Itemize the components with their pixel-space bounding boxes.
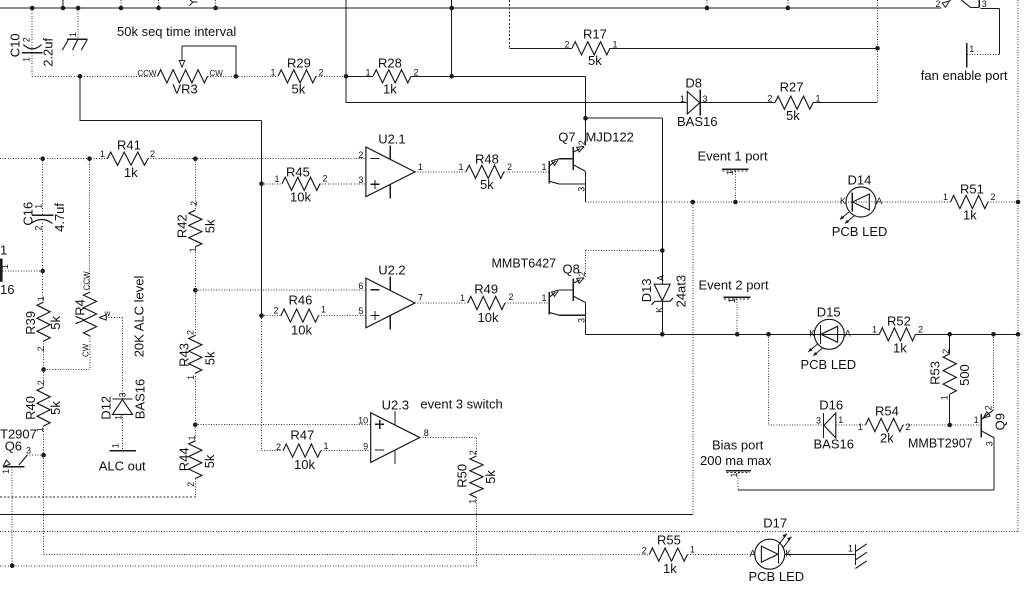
wire down x=999 — [999, 8, 1001, 54]
wire R53 bottom leg — [949, 394, 951, 425]
wire y=118 to x=662 — [586, 117, 663, 119]
svg-text:A: A — [876, 196, 882, 206]
wire corner to R47 — [262, 450, 275, 452]
port ALC out — [99, 443, 146, 473]
wire x=662 down — [661, 118, 663, 250]
resistor R28 — [365, 55, 418, 96]
svg-text:6: 6 — [358, 281, 363, 291]
wire node to R42 — [194, 159, 196, 211]
svg-text:2: 2 — [273, 306, 278, 316]
diode D13 24at3 — [639, 251, 689, 335]
label 20K ALC level — [132, 276, 147, 358]
node junction R45 x=261 — [259, 182, 264, 187]
svg-text:1: 1 — [22, 57, 32, 62]
node junction x=737 y=334 — [735, 332, 740, 337]
svg-text:R41: R41 — [117, 138, 141, 153]
node bus junction x=78 — [76, 6, 81, 11]
transistor Q7 MJD122 — [541, 130, 633, 192]
wire D16 to R54 — [836, 424, 866, 426]
svg-text:BAS16: BAS16 — [133, 379, 148, 419]
wire VR4 wiper to D12 — [106, 318, 122, 400]
svg-text:1: 1 — [974, 415, 979, 425]
wire VR4 cw to junction — [44, 336, 90, 370]
svg-text:D17: D17 — [763, 516, 787, 531]
node junction x=768 y=334 — [766, 332, 771, 337]
svg-text:Q6: Q6 — [5, 438, 22, 453]
svg-text:2: 2 — [150, 149, 155, 159]
node junction x=949 y=334 — [947, 332, 952, 337]
wire R43 to pin10 node — [194, 373, 196, 425]
port fan enable — [921, 43, 1008, 83]
svg-text:1: 1 — [943, 192, 948, 202]
wire node to R46 — [262, 315, 282, 317]
svg-text:1: 1 — [872, 325, 877, 335]
wire bottom bus y=531 — [0, 530, 1018, 532]
wire U2.3 out to R50 — [420, 438, 477, 457]
svg-text:1: 1 — [680, 94, 685, 104]
svg-text:R49: R49 — [474, 282, 498, 297]
wire Q9 emitter up — [992, 334, 994, 410]
connector edge pin 16 — [0, 243, 14, 298]
resistor R39 — [23, 296, 63, 351]
svg-text:2: 2 — [22, 37, 32, 42]
svg-text:5k: 5k — [480, 177, 494, 192]
wire R53 top leg — [949, 334, 951, 353]
svg-text:1: 1 — [848, 544, 853, 554]
svg-text:K: K — [840, 196, 846, 206]
wire Q8 emitter to event2 — [584, 315, 586, 334]
wire stub up at x=707 — [706, 0, 708, 8]
wire VR3 to R29 — [208, 75, 279, 77]
wire dotted y=566 — [0, 565, 477, 567]
resistor R51 — [943, 182, 996, 223]
node junction x=43 y=369 — [41, 367, 46, 372]
svg-text:VR4: VR4 — [72, 299, 87, 324]
svg-text:1: 1 — [727, 298, 737, 303]
svg-text:BAS16: BAS16 — [814, 437, 854, 452]
svg-text:1: 1 — [365, 67, 370, 77]
wire U2.2 out to R49 — [415, 302, 468, 304]
wire x=877 down to R27 line — [877, 48, 879, 102]
svg-text:K: K — [785, 549, 791, 559]
wire R47 to pin9 — [321, 450, 371, 452]
wire Q9 collector down — [993, 438, 995, 490]
svg-text:1: 1 — [188, 247, 198, 252]
svg-text:D14: D14 — [848, 173, 872, 188]
svg-text:U2.1: U2.1 — [378, 132, 405, 147]
resistor R17 — [564, 27, 617, 69]
svg-text:2: 2 — [186, 330, 196, 335]
svg-text:1k: 1k — [124, 165, 138, 180]
wire Q7 collector up — [585, 118, 587, 145]
wire y=76 corner down to 118 — [585, 76, 587, 118]
op-amp U2.3 — [358, 398, 429, 465]
wire R41 node down to VR4 — [89, 159, 91, 292]
svg-text:A: A — [656, 275, 666, 281]
wire R48 to Q7 base — [504, 171, 549, 173]
wire y=490 to bias port — [738, 489, 994, 491]
svg-text:D15: D15 — [817, 305, 841, 320]
svg-text:5k: 5k — [588, 53, 602, 68]
wire partial symbol above bus at x=193 — [190, 0, 198, 6]
wire Q7 emitter to event1 — [584, 184, 586, 202]
svg-text:10k: 10k — [478, 310, 499, 325]
wire vertical x=346 from top — [345, 0, 347, 76]
node bus junction x=158 — [156, 6, 161, 11]
svg-text:R40: R40 — [23, 396, 38, 420]
svg-text:1: 1 — [729, 472, 739, 477]
wire junction to R28 — [346, 75, 373, 77]
svg-text:3: 3 — [816, 415, 821, 425]
node junction x=12 y=566 — [10, 564, 15, 569]
svg-text:D16: D16 — [819, 398, 843, 413]
svg-text:1: 1 — [690, 545, 695, 555]
node junction x=735 y=202 — [733, 200, 738, 205]
node junction x=195 y=425 — [193, 422, 198, 427]
svg-text:9: 9 — [363, 441, 368, 451]
port Event 1 — [698, 149, 768, 203]
resistor R27 — [767, 80, 820, 124]
svg-text:U2.3: U2.3 — [382, 398, 409, 413]
svg-text:1: 1 — [418, 162, 423, 172]
svg-text:1: 1 — [110, 443, 120, 448]
node bus junction x=121 — [119, 6, 124, 11]
transistor Q6 — [0, 427, 37, 474]
wire R49 to Q8 base — [505, 302, 549, 304]
wire stub up at x=158 — [158, 0, 160, 8]
svg-text:10k: 10k — [290, 190, 311, 205]
svg-text:7: 7 — [418, 293, 423, 303]
wire vertical x=261 upper — [261, 121, 263, 316]
wire x=43 down to y=554 — [43, 455, 45, 554]
svg-text:K: K — [654, 307, 664, 313]
node bus junction x=788 — [786, 6, 791, 11]
svg-text:2: 2 — [991, 192, 996, 202]
wire C10 to VR3 — [32, 75, 157, 77]
svg-text:2: 2 — [767, 94, 772, 104]
node bus junction x=32 — [30, 6, 35, 11]
LED D14 PCB LED — [832, 173, 888, 240]
node bus junction x=215 — [213, 6, 218, 11]
svg-text:R17: R17 — [583, 27, 607, 42]
wire right vertical bus x=1018 — [1017, 0, 1019, 531]
op-amp U2.1 — [358, 132, 423, 199]
svg-text:1: 1 — [0, 243, 7, 258]
svg-text:CW: CW — [210, 69, 224, 78]
node junction x=195 y=290 — [193, 288, 198, 293]
svg-text:2: 2 — [189, 201, 199, 206]
resistor R40 — [23, 380, 63, 432]
svg-text:1k: 1k — [383, 82, 397, 97]
node junction x=43 y=455 — [41, 453, 46, 458]
svg-text:R46: R46 — [289, 293, 313, 308]
wire R40 to Q6 node — [43, 426, 45, 455]
svg-text:5k: 5k — [48, 315, 63, 329]
node junction x=42 y=159 — [40, 156, 45, 161]
svg-text:R52: R52 — [887, 314, 911, 329]
svg-text:2: 2 — [36, 380, 46, 385]
node junction x=89 y=159 — [87, 156, 92, 161]
wire x=768 down — [768, 334, 770, 425]
svg-text:Bias port: Bias port — [712, 438, 764, 453]
wire dashed y=497 — [0, 496, 195, 498]
svg-text:3: 3 — [117, 392, 127, 397]
svg-text:R48: R48 — [475, 152, 499, 167]
wire to D16 — [769, 424, 824, 426]
wire R27 to x=877 — [813, 102, 878, 104]
wire R39 to junction — [43, 341, 45, 370]
resistor R41 — [100, 138, 155, 181]
svg-text:3: 3 — [26, 445, 31, 455]
svg-text:3: 3 — [985, 441, 995, 446]
svg-text:5k: 5k — [292, 82, 306, 97]
svg-text:2: 2 — [36, 346, 46, 351]
svg-text:1: 1 — [460, 293, 465, 303]
svg-text:R28: R28 — [378, 55, 402, 70]
svg-text:1: 1 — [541, 293, 546, 303]
wire y=515 bus — [0, 514, 693, 516]
svg-text:50k seq time interval: 50k seq time interval — [117, 24, 236, 39]
svg-text:D12: D12 — [99, 396, 114, 420]
wire event2 line left — [585, 333, 879, 335]
wire y=554 bus — [44, 553, 650, 555]
resistor R48 — [458, 152, 512, 193]
svg-text:R42: R42 — [175, 214, 190, 238]
wire stub up at x=63 — [62, 0, 64, 8]
svg-text:Event 1 port: Event 1 port — [698, 149, 768, 164]
wire pin6 line — [195, 289, 366, 291]
svg-text:BAS16: BAS16 — [677, 114, 717, 129]
svg-text:C10: C10 — [8, 33, 23, 57]
ground chassis top — [62, 8, 87, 50]
resistor R53 — [928, 349, 972, 400]
svg-text:2: 2 — [935, 0, 940, 9]
node junction x=1018 y=202 — [1016, 200, 1021, 205]
wire R55 to D17 — [687, 554, 754, 556]
wire R41 to U2.1 pin2 — [148, 158, 366, 160]
wire R46 to pin5 — [319, 315, 366, 317]
port Bias — [700, 438, 772, 491]
wire node to R45 — [262, 183, 283, 185]
svg-text:1: 1 — [838, 415, 843, 425]
resistor R49 — [460, 282, 514, 326]
wire R50 down to y=566 — [476, 498, 478, 566]
wire event1 line left — [585, 201, 950, 203]
svg-text:2: 2 — [906, 422, 911, 432]
svg-text:Q9: Q9 — [993, 413, 1008, 430]
node junction x=662 y=334 — [660, 332, 665, 337]
resistor R50 — [455, 450, 498, 503]
svg-text:5k: 5k — [483, 470, 498, 484]
svg-text:1: 1 — [270, 67, 275, 77]
wire vertical x=510 dashed — [509, 0, 511, 48]
wire pin10 node to R44 — [194, 425, 196, 441]
svg-text:R47: R47 — [290, 428, 314, 443]
transistor Q9 MMBT2907 — [908, 405, 1008, 450]
svg-text:CW: CW — [82, 343, 91, 357]
wire Q6 collector to node — [27, 454, 44, 456]
svg-text:event 3 switch: event 3 switch — [420, 397, 502, 412]
svg-text:R53: R53 — [928, 361, 943, 385]
svg-text:1: 1 — [1, 469, 11, 474]
svg-text:2: 2 — [186, 482, 196, 487]
node junction x=346 y=76 — [344, 74, 349, 79]
svg-text:2k: 2k — [880, 431, 894, 446]
node junction x=195 y=159 — [193, 156, 198, 161]
svg-text:R43: R43 — [177, 343, 192, 367]
svg-text:MJD122: MJD122 — [586, 130, 634, 145]
node junction R46 x=261 — [259, 313, 264, 318]
node junction x=1018 y=334 — [1016, 332, 1021, 337]
svg-text:2: 2 — [642, 546, 647, 556]
svg-text:5k: 5k — [203, 219, 218, 233]
svg-text:R50: R50 — [455, 464, 470, 488]
wire R54 to Q9 base — [903, 424, 981, 426]
svg-text:1: 1 — [187, 435, 197, 440]
svg-text:K: K — [809, 328, 815, 338]
svg-text:10: 10 — [358, 415, 368, 425]
svg-text:2: 2 — [984, 405, 994, 410]
svg-text:5k: 5k — [786, 108, 800, 123]
svg-text:2: 2 — [564, 39, 569, 49]
svg-text:CCW: CCW — [137, 69, 157, 78]
svg-text:200 ma max: 200 ma max — [700, 453, 772, 468]
resistor R55 — [642, 533, 695, 577]
svg-text:2: 2 — [918, 325, 923, 335]
svg-text:1: 1 — [458, 162, 463, 172]
svg-text:R51: R51 — [960, 182, 984, 197]
svg-text:w: w — [104, 309, 111, 318]
svg-text:16: 16 — [0, 282, 14, 297]
node junction x=42 y=271 — [40, 269, 45, 274]
wire R42 to pin6 node — [194, 247, 196, 290]
svg-text:5k: 5k — [203, 351, 218, 365]
svg-text:fan enable port: fan enable port — [921, 68, 1008, 83]
svg-text:R54: R54 — [875, 404, 899, 419]
svg-text:R45: R45 — [286, 165, 310, 180]
svg-text:3: 3 — [982, 0, 987, 9]
ground chassis bottom-right — [848, 544, 867, 569]
node junction x=662 y=250 — [660, 248, 665, 253]
svg-text:1: 1 — [858, 422, 863, 432]
svg-text:1k: 1k — [963, 208, 977, 223]
resistor R44 — [177, 435, 218, 486]
wire connector to C16 node — [3, 270, 43, 272]
node junction x=949 y=425 — [947, 423, 952, 428]
svg-text:10k: 10k — [291, 323, 312, 338]
node bus junction x=63 — [61, 6, 66, 11]
wire corner x=346 to D8 — [346, 76, 687, 102]
svg-text:PCB LED: PCB LED — [801, 357, 857, 372]
svg-text:10k: 10k — [294, 457, 315, 472]
LED D15 PCB LED — [801, 305, 857, 373]
node junction x=877 y=48 — [875, 46, 880, 51]
wire pin6 node to R43 — [194, 290, 196, 335]
potentiometer VR4 — [72, 271, 110, 357]
svg-text:4.7uf: 4.7uf — [52, 203, 67, 232]
wire junction to corner x=585 — [452, 75, 586, 77]
wire stub up at x=788 — [787, 0, 789, 8]
svg-text:1: 1 — [324, 441, 329, 451]
wire U2.1 out to R48 — [415, 171, 466, 173]
svg-text:D13: D13 — [639, 278, 654, 302]
wire R45 to pin3 — [320, 183, 366, 185]
node bus junction x=707 — [705, 6, 710, 11]
svg-text:MMBT6427: MMBT6427 — [492, 257, 557, 271]
wire R17 left leg — [510, 47, 572, 49]
svg-text:2: 2 — [358, 150, 363, 160]
node junction x=585 y=118 — [583, 116, 588, 121]
svg-text:D8: D8 — [685, 76, 702, 91]
svg-text:1k: 1k — [893, 341, 907, 356]
wire Q6 emitter down — [11, 467, 13, 566]
wire left edge to R41 — [0, 158, 107, 160]
diode D12 BAS16 — [99, 379, 148, 420]
svg-text:R55: R55 — [657, 533, 681, 548]
resistor R29 — [270, 55, 323, 96]
wire stub up at x=121 — [120, 0, 122, 8]
potentiometer VR3 — [137, 46, 223, 97]
svg-text:R39: R39 — [23, 311, 38, 335]
svg-text:1: 1 — [68, 32, 78, 37]
transistor partial top-right — [935, 0, 986, 9]
svg-text:A: A — [750, 549, 756, 559]
svg-text:1k: 1k — [663, 561, 677, 576]
wire vertical x=877 — [877, 0, 879, 48]
svg-text:1: 1 — [816, 94, 821, 104]
svg-text:R44: R44 — [177, 447, 192, 471]
wire junction to R40 — [43, 370, 45, 388]
svg-text:1: 1 — [467, 499, 477, 504]
svg-text:1: 1 — [274, 174, 279, 184]
svg-text:U2.2: U2.2 — [378, 263, 405, 278]
diode D8 BAS16 — [677, 76, 717, 130]
svg-text:3: 3 — [358, 175, 363, 185]
resistor R54 — [858, 404, 911, 446]
svg-text:1: 1 — [541, 162, 546, 172]
wire to fan port — [967, 54, 1000, 56]
wire R29 to junction — [316, 75, 346, 77]
wire top supply bus — [0, 7, 942, 9]
svg-text:2: 2 — [468, 450, 478, 455]
svg-text:5k: 5k — [202, 454, 217, 468]
capacitor C16 — [20, 159, 67, 271]
svg-text:20K ALC level: 20K ALC level — [132, 276, 147, 358]
svg-text:PCB LED: PCB LED — [832, 224, 888, 239]
svg-text:1: 1 — [321, 305, 326, 315]
resistor R42 — [175, 201, 218, 252]
node junction x=693 y=202 — [691, 200, 696, 205]
svg-text:2: 2 — [323, 174, 328, 184]
svg-text:2: 2 — [34, 225, 44, 230]
wire R28 to junction x=452 — [411, 75, 452, 77]
svg-text:Event 2 port: Event 2 port — [699, 278, 769, 293]
wire D8 to R27 — [700, 102, 775, 104]
svg-text:5: 5 — [358, 306, 363, 316]
diode D16 BAS16 — [814, 398, 854, 452]
node junction x=80 y=76 — [78, 74, 83, 79]
wire pin3 to corner — [981, 7, 1000, 9]
svg-text:1: 1 — [725, 170, 735, 175]
svg-text:PCB LED: PCB LED — [749, 569, 805, 584]
wire Q8 collector up and right — [586, 251, 663, 277]
transistor Q8 MMBT6427 — [492, 257, 588, 324]
svg-text:1: 1 — [34, 204, 44, 209]
svg-text:1: 1 — [0, 264, 10, 269]
svg-text:8: 8 — [424, 428, 429, 438]
svg-text:MMBT2907: MMBT2907 — [908, 437, 973, 451]
svg-text:A: A — [845, 328, 851, 338]
